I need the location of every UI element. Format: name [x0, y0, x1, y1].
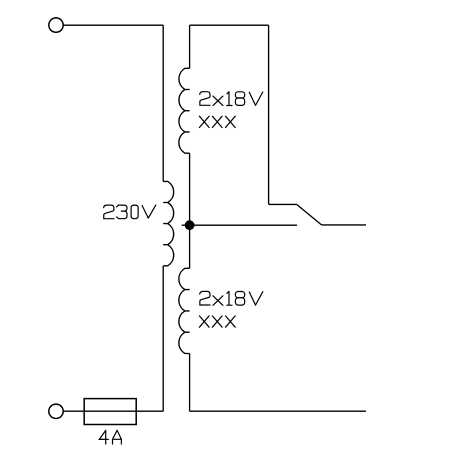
transformer T1 secondary winding 1: [179, 68, 190, 153]
wire switch feed vertical: [268, 25, 270, 204]
terminal X2: [49, 404, 63, 418]
label xxx lower: [199, 316, 235, 327]
terminal X1: [49, 18, 63, 32]
label 2x18V lower: [200, 291, 263, 305]
label xxx upper: [199, 116, 235, 127]
wire center tap horizontal: [190, 224, 297, 226]
wire center tap stub: [182, 224, 190, 226]
junction node center tap: [185, 220, 195, 230]
wire switch output horizontal: [322, 224, 367, 226]
wire secondary upper vertical: [189, 25, 191, 68]
wire secondary bottom vertical: [189, 354, 191, 412]
fuse F1: [84, 399, 136, 425]
transformer T1 primary winding 230V: [163, 181, 173, 265]
wire secondary center vertical: [189, 153, 191, 268]
switch S1 blade: [297, 204, 322, 225]
label 4A: [99, 430, 121, 444]
wire bottom-left horizontal: [63, 410, 163, 412]
transformer T1 secondary winding 2: [179, 268, 190, 353]
wire primary upper vertical: [162, 25, 164, 181]
wire switch feed horizontal: [269, 203, 297, 205]
label 2x18V upper: [200, 92, 263, 106]
wire secondary top horizontal: [190, 24, 269, 26]
wire bottom output horizontal: [190, 410, 366, 412]
wire primary lower vertical: [162, 266, 164, 411]
label 230V: [104, 205, 156, 219]
wire top-left horizontal: [63, 24, 163, 26]
